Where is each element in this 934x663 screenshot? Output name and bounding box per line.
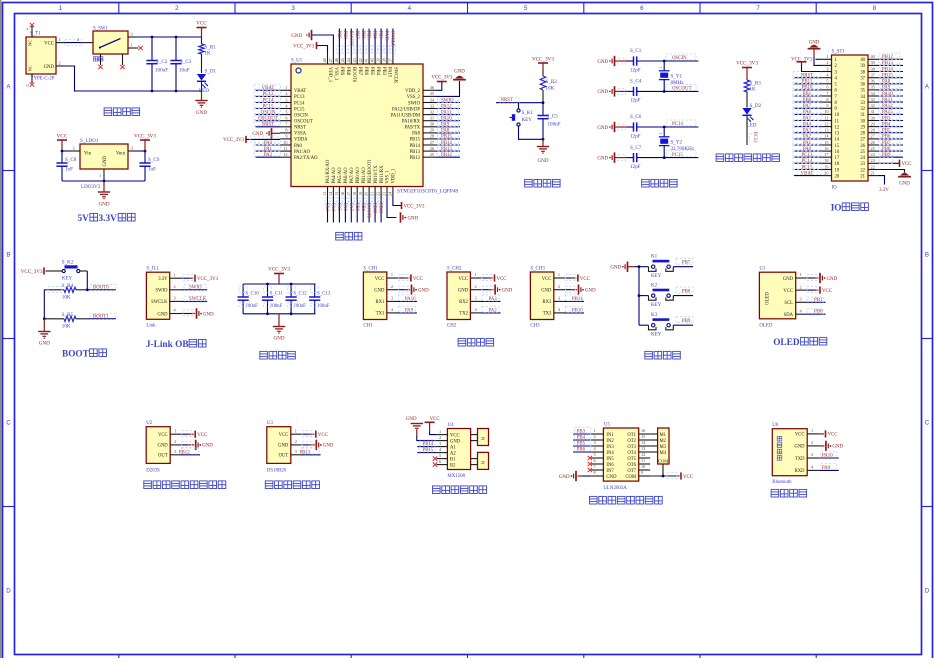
- svg-text:VCC: VCC: [158, 433, 168, 438]
- U1 pin 43 PB7 top: [352, 29, 360, 65]
- svg-text:IN6: IN6: [606, 463, 614, 468]
- title bluetooth module: [771, 489, 807, 497]
- power port VCC_3V3 run led: [736, 61, 758, 81]
- ST1 pin 30 right: [868, 114, 903, 121]
- JL1 pin 4 to GND: [170, 308, 214, 319]
- ST1 pin 32 right: [868, 102, 903, 109]
- svg-text:GND: GND: [502, 289, 513, 294]
- svg-text:VCC: VCC: [57, 134, 68, 140]
- svg-text:1: 1: [800, 272, 802, 277]
- U1 pin 9 VDDA: [280, 134, 291, 139]
- svg-text:1: 1: [558, 272, 560, 277]
- svg-text:PB13: PB13: [410, 150, 421, 155]
- pin 2 LDO Vout: [128, 146, 146, 153]
- U1 pin 21 PB10/TX bottom: [370, 187, 378, 223]
- svg-text:U5: U5: [604, 423, 611, 428]
- svg-text:GND: GND: [450, 439, 461, 444]
- svg-text:PB6: PB6: [577, 448, 586, 453]
- ST1 pin 38 right: [868, 65, 903, 72]
- svg-text:GND: GND: [537, 158, 548, 164]
- svg-text:11: 11: [283, 146, 287, 151]
- svg-text:PC15: PC15: [294, 107, 305, 112]
- svg-text:29: 29: [860, 125, 865, 130]
- svg-text:PB0: PB0: [814, 310, 823, 315]
- svg-text:SWIO: SWIO: [156, 289, 169, 294]
- svg-text:36: 36: [860, 83, 865, 88]
- svg-text:28: 28: [430, 134, 434, 139]
- capacitor S_C9 1uF: [139, 151, 159, 181]
- svg-text:8: 8: [594, 470, 596, 475]
- svg-text:2: 2: [175, 5, 179, 12]
- svg-text:GND: GND: [606, 475, 617, 480]
- svg-text:RXD: RXD: [795, 469, 806, 474]
- OLED pin 3 net PB1: [796, 297, 826, 304]
- U1 pin 5 OSCIN: [254, 108, 291, 115]
- svg-text:9: 9: [285, 134, 287, 139]
- svg-text:IN7: IN7: [606, 469, 614, 474]
- svg-text:VCC: VCC: [375, 277, 385, 282]
- power port VCC_3V3 filter: [268, 267, 290, 285]
- svg-text:GND: GND: [44, 65, 55, 70]
- ST1 pin 1 left: [821, 54, 832, 59]
- svg-text:PB5: PB5: [366, 31, 371, 40]
- svg-text:KEY: KEY: [651, 332, 662, 338]
- svg-text:28: 28: [871, 128, 875, 133]
- svg-text:5: 5: [594, 452, 596, 457]
- svg-text:VCC: VCC: [580, 277, 590, 282]
- svg-text:33: 33: [871, 97, 875, 102]
- svg-text:3: 3: [285, 97, 287, 102]
- svg-text:9: 9: [826, 103, 828, 108]
- svg-text:1: 1: [659, 133, 663, 135]
- svg-text:S_R2: S_R2: [546, 79, 558, 85]
- svg-text:PB9: PB9: [339, 67, 344, 76]
- svg-text:M3: M3: [660, 445, 667, 450]
- svg-text:STM32F103C8T6_LQFP48: STM32F103C8T6_LQFP48: [397, 189, 458, 195]
- ST1 pin 27 right: [868, 133, 903, 140]
- U3 pin 3 net PB13: [291, 448, 321, 455]
- svg-text:PA2/TX/AO: PA2/TX/AO: [294, 156, 318, 161]
- U1 pin 24 VDD_1 bottom: [388, 187, 393, 197]
- svg-text:23: 23: [382, 192, 387, 196]
- power port VCC_3V3 at U1 pin 48 VDD_3: [293, 42, 327, 53]
- svg-text:25: 25: [430, 152, 434, 157]
- LED S_D2: [742, 103, 761, 129]
- U5 pin 4 net PB6: [573, 445, 603, 452]
- motor connector A: [471, 429, 489, 446]
- svg-text:D203S: D203S: [146, 469, 160, 474]
- ST1 pin 31 right: [868, 108, 903, 115]
- svg-text:OSCOUT: OSCOUT: [672, 87, 692, 92]
- U5 pin 5 no-connect: [588, 452, 604, 460]
- ground GND ldo: [98, 181, 110, 208]
- ST1 pin 9 left: [793, 102, 832, 109]
- svg-text:5V: 5V: [78, 214, 90, 224]
- svg-text:GND: GND: [597, 156, 608, 161]
- svg-text:D: D: [925, 588, 930, 595]
- svg-text:PB6: PB6: [360, 31, 365, 40]
- svg-text:12pF: 12pF: [630, 67, 641, 73]
- svg-text:COM: COM: [625, 475, 637, 480]
- U1 pin 20 PB2/BOOT1 bottom: [364, 187, 372, 223]
- U1 pin 2 PC13: [254, 90, 291, 97]
- svg-text:Vout: Vout: [116, 152, 126, 157]
- ST1 pin 34 right: [868, 90, 903, 97]
- svg-text:PA0: PA0: [294, 144, 303, 149]
- svg-text:GND: GND: [454, 70, 465, 75]
- svg-text:2: 2: [558, 284, 560, 289]
- pushbutton K3 KEY net PB9: [639, 312, 693, 338]
- svg-text:PA10: PA10: [405, 297, 416, 302]
- svg-text:8: 8: [873, 5, 877, 12]
- svg-text:11: 11: [835, 119, 840, 124]
- ST1 pin 2 left: [821, 60, 832, 65]
- svg-text:35: 35: [871, 85, 875, 90]
- svg-text:0: 0: [27, 83, 29, 88]
- svg-text:PB9: PB9: [336, 31, 341, 40]
- svg-text:OT3: OT3: [627, 445, 636, 450]
- svg-text:B2: B2: [450, 463, 456, 468]
- switch bottom pin no-connect: [98, 54, 102, 69]
- svg-text:PA15: PA15: [387, 67, 392, 78]
- svg-text:GND: GND: [39, 341, 50, 347]
- svg-text:A2: A2: [450, 451, 456, 456]
- CH3 pin 2 to GND: [554, 284, 596, 295]
- svg-text:VDD_1: VDD_1: [392, 168, 397, 183]
- OLED pin 2 to VCC: [796, 284, 832, 294]
- CH3 pin 4 net PB10: [554, 306, 584, 313]
- regulator S_LDO1 LDO3V3: [80, 138, 128, 190]
- svg-text:PB4: PB4: [372, 31, 377, 40]
- ST1 pin 4 left: [793, 72, 832, 79]
- svg-text:VCC: VCC: [683, 475, 693, 480]
- net 3.3V header pin 21: [878, 176, 889, 193]
- power port VCC_3V3 at U1 pin 36 VDD_2: [431, 76, 452, 91]
- U5 pin 12 right stub: [639, 452, 651, 458]
- svg-text:SWCLK: SWCLK: [390, 31, 395, 48]
- U2 pin 1 to VCC: [170, 428, 207, 438]
- ST1 pin 33 right: [868, 96, 903, 103]
- wire boot left vertical: [43, 290, 46, 320]
- ground GND dc motor top: [406, 417, 423, 431]
- svg-text:S_ST1: S_ST1: [832, 50, 846, 55]
- svg-text:PA9: PA9: [822, 466, 831, 471]
- svg-text:VSSA: VSSA: [294, 132, 307, 137]
- U5 pin 3 net PB5: [573, 439, 603, 446]
- svg-text:2: 2: [59, 61, 61, 66]
- svg-text:K1: K1: [651, 253, 658, 259]
- svg-text:41: 41: [364, 58, 369, 62]
- svg-text:BOOT1: BOOT1: [93, 314, 109, 319]
- capacitor S_C4 12pF with GND and net OSCOUT: [597, 79, 698, 104]
- U1 pin 3 PC14: [254, 96, 291, 103]
- power port VCC: [196, 21, 207, 38]
- stepper connector body: [650, 428, 669, 464]
- svg-text:OT4: OT4: [627, 451, 636, 456]
- svg-text:PC15: PC15: [672, 153, 683, 158]
- svg-text:PB12: PB12: [410, 156, 421, 161]
- U3 pin 1 to VCC: [291, 428, 328, 438]
- svg-text:22: 22: [860, 168, 865, 173]
- CH1 pin 2 to GND: [387, 284, 429, 295]
- CH1 pin 4 net PA9: [387, 306, 417, 313]
- svg-text:GND: GND: [418, 289, 429, 294]
- svg-text:1: 1: [295, 428, 297, 433]
- svg-text:3: 3: [811, 452, 813, 457]
- ST1 pin 28 right: [868, 127, 903, 134]
- capacitor S_C1 12pF with GND and net OSCIN: [597, 48, 698, 73]
- svg-text:KEY: KEY: [651, 273, 662, 279]
- title serial circuit: [458, 338, 494, 346]
- svg-text:GND: GND: [408, 217, 419, 222]
- driver U5 ULN2003A body: [603, 423, 638, 492]
- U3 pin 2 to GND: [291, 439, 334, 450]
- svg-text:GND: GND: [278, 444, 289, 449]
- svg-text:10uF: 10uF: [179, 68, 190, 74]
- ground GND boot: [38, 319, 50, 347]
- svg-text:VCC: VCC: [197, 433, 207, 438]
- U1 pin 28 PB15: [423, 133, 460, 140]
- U1 pin 35 VSS_2: [423, 91, 437, 96]
- svg-text:1: 1: [59, 37, 61, 42]
- svg-text:39: 39: [376, 58, 381, 62]
- svg-text:GND: GND: [559, 475, 570, 480]
- svg-text:23: 23: [860, 162, 865, 167]
- U1 pin 36 VDD_2: [423, 85, 437, 90]
- connector S_CH1 body: [363, 267, 386, 329]
- svg-text:12: 12: [283, 152, 287, 157]
- svg-text:PB1: PB1: [814, 298, 823, 303]
- capacitor S_C10 100nF: [238, 284, 260, 314]
- svg-text:PB5: PB5: [369, 67, 374, 76]
- power port VCC_3V3 at U1 pin 24 VDD_1: [393, 197, 425, 210]
- svg-text:VCC: VCC: [450, 433, 460, 438]
- ground GND power circuit: [195, 91, 207, 116]
- ST1 pin 22 right: [868, 164, 878, 169]
- svg-text:48: 48: [322, 58, 327, 62]
- power port VCC_3V3 ldo out: [134, 134, 156, 152]
- svg-text:32: 32: [430, 109, 434, 114]
- svg-text:1: 1: [285, 85, 287, 90]
- svg-text:VCC: VCC: [822, 289, 832, 294]
- U1 pin 42 PB6 top: [358, 29, 366, 65]
- U6 pin 2 to GND: [807, 440, 843, 451]
- svg-text:22: 22: [376, 192, 381, 196]
- svg-text:PC15: PC15: [802, 165, 813, 170]
- svg-text:30: 30: [430, 122, 434, 127]
- U5 pin 14 right stub: [639, 440, 651, 446]
- pushbutton K1 KEY net PB7: [639, 253, 693, 279]
- svg-text:VCC: VCC: [828, 433, 838, 438]
- svg-text:PC14: PC14: [294, 101, 305, 106]
- svg-text:S_C7: S_C7: [630, 145, 642, 151]
- svg-text:5: 5: [524, 5, 528, 12]
- capacitor S_C8 1uF: [56, 151, 76, 181]
- ST1 pin 20 left: [793, 169, 832, 176]
- svg-text:GND: GND: [899, 182, 910, 187]
- U1 pin 29 PA8: [423, 127, 460, 134]
- svg-text:VCC_3V3: VCC_3V3: [404, 204, 425, 209]
- svg-text:PB0/AO: PB0/AO: [356, 167, 361, 184]
- svg-text:VCC_3V3: VCC_3V3: [736, 61, 758, 67]
- svg-text:SWIO: SWIO: [408, 101, 421, 106]
- CH3 pin 1 to VCC: [554, 272, 590, 282]
- svg-text:20: 20: [835, 174, 840, 179]
- U1 pin 32 PA11/USB/DM: [423, 108, 460, 115]
- svg-text:1: 1: [391, 272, 393, 277]
- svg-text:a: a: [27, 26, 29, 31]
- ST1 pin 37 right: [868, 72, 903, 79]
- svg-text:VDD_2: VDD_2: [405, 89, 420, 94]
- svg-text:3: 3: [594, 440, 596, 445]
- svg-text:B: B: [6, 252, 10, 259]
- module U6 Bluetooth body: [772, 423, 807, 485]
- svg-text:PB8: PB8: [345, 67, 350, 76]
- svg-text:23: 23: [871, 158, 875, 163]
- svg-text:3: 3: [73, 146, 75, 151]
- svg-text:VCC: VCC: [497, 277, 507, 282]
- svg-text:BOOT0: BOOT0: [351, 67, 356, 83]
- U1 pin 18 PB0/AO bottom: [352, 187, 360, 223]
- svg-text:5: 5: [439, 453, 441, 458]
- svg-text:VSS_1: VSS_1: [386, 170, 391, 184]
- svg-text:VCC: VCC: [44, 41, 54, 46]
- wire T1 VCC to switch: [65, 37, 93, 46]
- svg-text:PB13: PB13: [299, 450, 310, 455]
- power port VCC dc motor top: [425, 417, 440, 431]
- U1 pin 6 OSCOUT: [254, 115, 291, 122]
- svg-text:5: 5: [285, 109, 287, 114]
- svg-text:40: 40: [370, 58, 375, 62]
- LED S_D1: [197, 69, 217, 95]
- svg-text:PA4/AO: PA4/AO: [332, 167, 337, 184]
- power port VCC_3V3 boot: [21, 267, 56, 275]
- svg-text:PB10/TX: PB10/TX: [374, 165, 379, 184]
- svg-text:GND: GND: [541, 289, 552, 294]
- pushbutton K2 KEY net PB8: [639, 282, 693, 308]
- svg-text:S_CH2: S_CH2: [447, 267, 462, 272]
- svg-text:45: 45: [340, 58, 345, 62]
- svg-text:VCC_3V3: VCC_3V3: [21, 269, 43, 275]
- svg-text:VCC: VCC: [783, 289, 793, 294]
- sensor U3 DS18B20 body: [267, 421, 291, 473]
- CH2 pin 1 to VCC: [470, 272, 506, 282]
- svg-text:GND: GND: [158, 444, 169, 449]
- svg-text:3: 3: [826, 66, 828, 71]
- svg-text:SDA: SDA: [784, 313, 794, 318]
- svg-text:29: 29: [430, 128, 434, 133]
- svg-text:PB4: PB4: [577, 436, 586, 441]
- U1 pin 1 VBAT: [254, 84, 291, 91]
- ST1 pin 24 right: [868, 151, 903, 158]
- svg-text:IO: IO: [831, 204, 842, 214]
- svg-text:PB9: PB9: [682, 319, 691, 324]
- svg-text:M: M: [481, 461, 486, 465]
- capacitor S_C5 100nF: [537, 103, 560, 141]
- svg-text:CH1: CH1: [363, 323, 373, 328]
- svg-text:OT2: OT2: [627, 439, 636, 444]
- svg-text:3: 3: [291, 5, 295, 12]
- svg-text:PB11: PB11: [802, 80, 813, 85]
- svg-text:OLED: OLED: [759, 323, 773, 328]
- ST1 pin 10 left: [793, 108, 832, 115]
- svg-text:39: 39: [860, 64, 865, 69]
- svg-text:PA10: PA10: [822, 454, 833, 459]
- svg-text:40: 40: [871, 54, 875, 59]
- svg-text:PB15: PB15: [423, 448, 434, 453]
- svg-text:IN2: IN2: [606, 439, 614, 444]
- svg-text:VCC_3V3: VCC_3V3: [431, 76, 452, 81]
- svg-text:2: 2: [800, 284, 802, 289]
- svg-text:NRST: NRST: [294, 126, 306, 131]
- svg-text:PA8: PA8: [412, 132, 421, 137]
- svg-text:S_R5: S_R5: [62, 312, 74, 318]
- svg-text:100uF: 100uF: [155, 68, 168, 74]
- svg-text:GND: GND: [203, 312, 214, 317]
- CH2 pin 2 to GND: [470, 284, 512, 295]
- svg-text:1: 1: [99, 173, 101, 178]
- U1 pin 16 PA6/AO bottom: [340, 187, 348, 223]
- svg-text:18: 18: [352, 192, 357, 196]
- ST1 pin 15 left: [793, 139, 832, 146]
- title filter circuit: [260, 351, 296, 359]
- svg-text:VSS_2: VSS_2: [407, 95, 421, 100]
- U5 pin 8 to GND: [559, 470, 604, 481]
- U5 pin 16 right stub: [639, 428, 651, 434]
- ST1 pin 36 right: [868, 78, 903, 85]
- ST1 pin 35 right: [868, 84, 903, 91]
- svg-text:Bluetooth: Bluetooth: [772, 480, 792, 485]
- OLED pin 1 to GND: [796, 272, 838, 283]
- svg-text:VCC: VCC: [902, 162, 912, 167]
- svg-text:LED: LED: [199, 88, 209, 94]
- svg-text:15: 15: [835, 144, 840, 149]
- filter top rail wire: [243, 283, 315, 286]
- svg-text:21: 21: [871, 170, 875, 175]
- crystal S_Y1 8MHz: [659, 61, 684, 91]
- svg-text:S_C3: S_C3: [180, 59, 192, 65]
- svg-text:3: 3: [295, 449, 297, 454]
- svg-text:C: C: [925, 420, 930, 427]
- U4 pin 1 wire to VCC: [430, 429, 448, 435]
- svg-text:31: 31: [871, 109, 875, 114]
- svg-text:S_C2: S_C2: [156, 59, 168, 65]
- svg-text:15: 15: [824, 140, 828, 145]
- svg-text:33: 33: [860, 101, 865, 106]
- U1 pin 22 PB11/RX bottom: [376, 187, 384, 223]
- svg-text:K3: K3: [651, 312, 658, 318]
- U1 pin 44 BOOT0 top: [346, 29, 354, 65]
- ST1 pin 5 left: [793, 78, 832, 85]
- svg-text:1: 1: [59, 5, 63, 12]
- svg-text:20: 20: [824, 170, 828, 175]
- ground GND header top: [808, 41, 821, 66]
- U1 pin 46 PB9 top: [334, 29, 342, 65]
- svg-text:PB11: PB11: [572, 297, 583, 302]
- svg-text:GND: GND: [157, 312, 168, 317]
- svg-text:S_SW1: S_SW1: [93, 27, 109, 32]
- svg-text:S_C6: S_C6: [630, 114, 642, 120]
- svg-text:RX3: RX3: [543, 300, 553, 305]
- U2 pin 2 to GND: [170, 439, 213, 450]
- wire main 5V rail: [138, 36, 202, 39]
- svg-text:PB3: PB3: [577, 430, 586, 435]
- svg-text:SWCLK: SWCLK: [151, 300, 168, 305]
- svg-text:PB10: PB10: [572, 308, 583, 313]
- svg-text:PA15: PA15: [384, 31, 389, 42]
- svg-text:VCC: VCC: [318, 433, 328, 438]
- U5 pin 7 no-connect: [588, 464, 604, 472]
